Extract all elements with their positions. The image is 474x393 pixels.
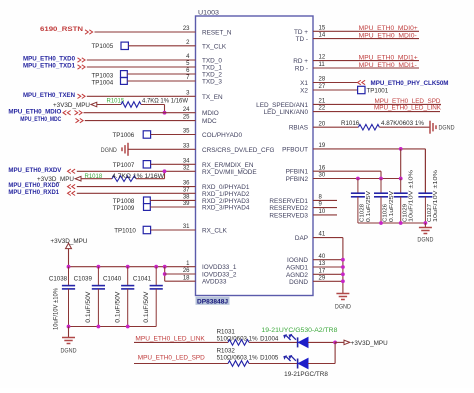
- wire RXD_2 pin38: [150, 199, 195, 201]
- svg-text:C1041: C1041: [133, 275, 152, 282]
- wire TX_CLK pin2: [128, 45, 195, 47]
- wire X1 pin28: [313, 82, 358, 84]
- svg-text:COL/PHYAD0: COL/PHYAD0: [202, 132, 242, 139]
- svg-text:14: 14: [319, 33, 326, 39]
- wire AGND2 pin17: [313, 273, 343, 275]
- junction RXDV/R1018: [163, 169, 167, 173]
- wire R1015 to MDIO: [141, 104, 165, 106]
- svg-text:18: 18: [183, 275, 190, 281]
- svg-text:4.87K/0603 1%: 4.87K/0603 1%: [381, 120, 424, 127]
- wire RESET_N pin23: [85, 30, 93, 34]
- svg-text:MPU_ETH0_TXD1: MPU_ETH0_TXD1: [23, 63, 76, 70]
- svg-text:13: 13: [319, 261, 326, 267]
- svg-text:AGND1: AGND1: [286, 265, 308, 272]
- svg-text:10uF/10V ±10%: 10uF/10V ±10%: [433, 170, 439, 222]
- svg-text:MPU_ETH0_MDC: MPU_ETH0_MDC: [20, 116, 61, 123]
- svg-text:C1038: C1038: [49, 275, 68, 282]
- svg-text:AGND2: AGND2: [286, 272, 308, 279]
- wire C1029 branch vertical: [400, 149, 402, 179]
- wire TD+ pin15: [313, 30, 419, 32]
- svg-text:PFBIN2: PFBIN2: [286, 176, 309, 183]
- svg-text:16: 16: [319, 165, 326, 171]
- junction PFB dots: [356, 177, 360, 181]
- svg-text:RX_CLK: RX_CLK: [202, 228, 228, 235]
- svg-text:C1026: C1026: [383, 204, 389, 222]
- svg-text:C1028: C1028: [360, 204, 366, 222]
- svg-text:27: 27: [319, 84, 326, 90]
- svg-text:RXD_1/PHYAD2: RXD_1/PHYAD2: [202, 191, 250, 198]
- svg-text:40: 40: [319, 254, 326, 260]
- wire R1018 branch: [81, 178, 112, 180]
- capacitor C1028: [357, 179, 359, 194]
- wire RESERVED3 pin10 stub: [313, 214, 337, 216]
- wire PFB cap bottom rail: [358, 222, 426, 224]
- testpoint TP1001: [358, 86, 365, 93]
- svg-text:IOGND: IOGND: [287, 257, 308, 264]
- svg-text:MDIO: MDIO: [202, 110, 219, 117]
- svg-text:DGND: DGND: [417, 236, 433, 243]
- junction LED rail: [333, 341, 337, 345]
- svg-text:R1032: R1032: [217, 347, 236, 354]
- svg-text:MPU_ETH0_TXD0: MPU_ETH0_TXD0: [23, 56, 76, 63]
- wire RX_DV pin32: [68, 169, 76, 173]
- svg-text:TP1003: TP1003: [92, 73, 114, 80]
- svg-text:U1003: U1003: [198, 10, 220, 17]
- svg-text:R1031: R1031: [217, 328, 236, 335]
- svg-text:DGND: DGND: [101, 147, 117, 154]
- svg-text:22: 22: [319, 106, 326, 112]
- svg-text:MPU_ETH0_LED_LINK: MPU_ETH0_LED_LINK: [374, 105, 442, 112]
- wire RD- pin11: [313, 67, 419, 69]
- svg-text:24: 24: [183, 107, 190, 113]
- svg-text:RBIAS: RBIAS: [289, 125, 308, 132]
- svg-text:MPU_ETH0_RXDV: MPU_ETH0_RXDV: [8, 167, 62, 174]
- svg-text:TXD_2: TXD_2: [202, 72, 222, 79]
- svg-text:6190_RSTN: 6190_RSTN: [40, 26, 84, 33]
- capacitor C1027: [424, 149, 426, 193]
- svg-text:RD +: RD +: [293, 58, 308, 65]
- wire TD- pin14: [313, 38, 419, 40]
- wire R1031 to D1004: [249, 341, 298, 343]
- svg-text:RESERVED3: RESERVED3: [269, 212, 308, 219]
- wire RX_ER pin34: [151, 163, 196, 165]
- wire TXD_3 pin7: [127, 80, 195, 82]
- ground DGND at PFB caps: [424, 223, 426, 228]
- svg-text:C1039: C1039: [74, 275, 93, 282]
- svg-text:DGND: DGND: [439, 125, 455, 132]
- svg-text:TX_EN: TX_EN: [202, 94, 223, 101]
- svg-text:D1004: D1004: [260, 336, 279, 343]
- node +3V3D_MPU power (LED): [335, 341, 344, 343]
- value DP83848J highlighted: [196, 297, 230, 305]
- svg-text:C1040: C1040: [103, 275, 122, 282]
- svg-text:DGND: DGND: [61, 347, 77, 354]
- wire DGND pin29: [313, 280, 343, 282]
- wire cap bottom rail: [69, 326, 157, 328]
- wire branch to pins 26/18: [164, 267, 166, 282]
- svg-text:510Ω/0603 1%: 510Ω/0603 1%: [217, 336, 258, 343]
- svg-text:TP1001: TP1001: [367, 88, 389, 95]
- svg-text:37: 37: [183, 187, 190, 193]
- svg-text:TP1007: TP1007: [113, 162, 135, 169]
- svg-text:DGND: DGND: [289, 279, 308, 286]
- svg-text:X1: X1: [300, 80, 308, 87]
- svg-text:10: 10: [319, 209, 326, 215]
- junction MDIO/R1015: [163, 111, 167, 115]
- svg-text:C1027: C1027: [427, 204, 433, 222]
- wire PFBOUT pin19: [313, 148, 425, 150]
- svg-text:19-21UYC/G530-A2/TR8: 19-21UYC/G530-A2/TR8: [261, 328, 338, 334]
- svg-text:AVDD33: AVDD33: [202, 279, 227, 286]
- ground DGND at pin29 bus: [336, 294, 349, 300]
- svg-text:IOVDD33_1: IOVDD33_1: [202, 264, 237, 271]
- svg-text:+3V3D_MPU: +3V3D_MPU: [351, 340, 388, 347]
- wire +3V3D vertical: [68, 249, 70, 267]
- capacitor C1026: [380, 179, 382, 194]
- svg-text:19-21PGC/TR8: 19-21PGC/TR8: [284, 371, 328, 378]
- svg-text:0.1uF/50V: 0.1uF/50V: [86, 292, 92, 323]
- svg-text:TX_CLK: TX_CLK: [202, 43, 227, 50]
- svg-text:0.1uF/25V: 0.1uF/25V: [389, 191, 395, 222]
- svg-text:TP1010: TP1010: [114, 228, 136, 235]
- wire R1032 to D1005: [249, 363, 298, 365]
- svg-text:21: 21: [319, 99, 326, 105]
- wire X2 pin27: [313, 89, 358, 91]
- wire RD+ pin12: [313, 60, 419, 62]
- wire power rail to pin1: [69, 266, 196, 268]
- wire LED vertical join: [334, 342, 336, 363]
- svg-text:0.1uF/25V: 0.1uF/25V: [366, 191, 372, 222]
- wire RESERVED2 pin9 stub: [313, 207, 337, 209]
- svg-text:RX_ER/MDIX_EN: RX_ER/MDIX_EN: [202, 162, 254, 169]
- svg-text:TXD_3: TXD_3: [202, 79, 222, 86]
- svg-text:29: 29: [319, 275, 326, 281]
- svg-text:TD +: TD +: [294, 29, 308, 36]
- wire RXD_1 pin37: [68, 191, 76, 195]
- svg-text:11: 11: [319, 62, 326, 68]
- wire RESERVED1 pin8 stub: [313, 199, 337, 201]
- node MPU_ETH0_PHY_CLK50M: [358, 80, 366, 84]
- svg-text:MPU_ETH0_LED_SPD: MPU_ETH0_LED_SPD: [138, 355, 205, 362]
- svg-text:PFBOUT: PFBOUT: [282, 146, 308, 153]
- op-amp U1003 IC body DP83848J: [196, 16, 314, 296]
- svg-text:TP1006: TP1006: [113, 132, 135, 139]
- svg-text:D1005: D1005: [260, 355, 279, 362]
- svg-text:4.7KΩ 1% 1/16W: 4.7KΩ 1% 1/16W: [142, 99, 188, 105]
- svg-text:25: 25: [183, 115, 190, 121]
- wire RXD_0 pin36: [68, 184, 76, 188]
- capacitor C1029: [400, 179, 402, 194]
- wire LED_LINK pin22: [313, 111, 440, 113]
- wire D1004 to +3V3D: [308, 341, 335, 343]
- svg-text:23: 23: [183, 26, 190, 32]
- svg-text:TP1004: TP1004: [92, 80, 114, 87]
- wire R1015 branch: [97, 104, 121, 106]
- svg-text:19: 19: [319, 143, 326, 149]
- svg-text:38: 38: [183, 195, 190, 201]
- wire DAP pin41: [313, 237, 343, 239]
- svg-text:36: 36: [183, 181, 190, 187]
- svg-text:TXD_0: TXD_0: [202, 58, 222, 65]
- svg-text:LED_SPEED/AN1: LED_SPEED/AN1: [256, 102, 308, 109]
- wire COL pin35: [151, 134, 196, 136]
- diode D1004 LED: [284, 335, 308, 348]
- svg-text:39: 39: [183, 201, 190, 207]
- svg-text:33: 33: [183, 143, 190, 149]
- svg-text:17: 17: [319, 268, 326, 274]
- wire MDC pin25: [76, 118, 84, 122]
- svg-text:20: 20: [319, 121, 326, 127]
- wire CRS pin33: [128, 148, 196, 150]
- wire AGND1 pin13: [313, 266, 343, 268]
- svg-text:DAP: DAP: [295, 235, 308, 242]
- svg-text:12: 12: [319, 55, 326, 61]
- svg-text:15: 15: [319, 25, 326, 31]
- diode D1005 LED: [284, 356, 308, 369]
- svg-text:DP83848J: DP83848J: [197, 299, 229, 306]
- wire TXD_2 pin6: [127, 73, 195, 75]
- svg-text:510Ω/0603 1%: 510Ω/0603 1%: [217, 355, 258, 362]
- svg-text:MPU_ETH0_LED_LINK: MPU_ETH0_LED_LINK: [135, 336, 205, 343]
- ground DGND at RBIAS: [430, 121, 436, 134]
- junction PFBOUT/C1029: [399, 147, 403, 151]
- wire R1016 to ground: [379, 126, 430, 128]
- svg-text:34: 34: [183, 158, 190, 164]
- wire TXD_1 pin5: [78, 65, 86, 69]
- svg-text:C1029: C1029: [402, 204, 408, 222]
- wire TX_EN pin3: [78, 94, 86, 98]
- svg-text:R1018: R1018: [85, 174, 103, 180]
- svg-text:31: 31: [183, 224, 190, 230]
- wire LED_LINK row: [134, 341, 228, 343]
- svg-text:RESERVED2: RESERVED2: [269, 205, 308, 212]
- svg-text:0.1uF/50V: 0.1uF/50V: [115, 292, 121, 323]
- wire TXD_0 pin4: [78, 58, 86, 62]
- svg-text:MPU_ETH0_TXEN: MPU_ETH0_TXEN: [23, 92, 76, 99]
- wire LED_SPEED pin21: [313, 103, 441, 105]
- wire R1018 to RXDV: [136, 178, 165, 180]
- svg-text:RD -: RD -: [295, 66, 308, 73]
- svg-text:RESERVED1: RESERVED1: [269, 198, 308, 205]
- svg-text:MPU_ETH0_MDIO: MPU_ETH0_MDIO: [8, 108, 61, 115]
- svg-text:41: 41: [319, 232, 326, 238]
- svg-text:35: 35: [183, 129, 190, 135]
- svg-text:TP1005: TP1005: [92, 43, 114, 50]
- svg-text:MPU_ETH0_RXD1: MPU_ETH0_RXD1: [8, 189, 59, 196]
- svg-text:LED_LINK/AN0: LED_LINK/AN0: [264, 109, 309, 116]
- svg-text:X2: X2: [300, 88, 308, 95]
- svg-text:RESET_N: RESET_N: [202, 30, 232, 37]
- svg-text:CRS/CRS_DV/LED_CFG: CRS/CRS_DV/LED_CFG: [202, 147, 274, 154]
- wire PFBIN2 pin30: [313, 178, 401, 180]
- svg-text:26: 26: [183, 268, 190, 274]
- svg-text:RXD_3/PHYAD4: RXD_3/PHYAD4: [202, 205, 250, 212]
- svg-text:PFBIN1: PFBIN1: [286, 169, 309, 176]
- svg-text:10uF/10V ±10%: 10uF/10V ±10%: [409, 170, 415, 222]
- svg-text:MPU_ETH0_PHY_CLK50M: MPU_ETH0_PHY_CLK50M: [371, 80, 449, 87]
- wire MDIO pin24: [63, 111, 71, 115]
- wire IOGND pin40: [313, 259, 343, 261]
- wire RBIAS pin20: [313, 126, 358, 128]
- svg-text:0.1uF/50V: 0.1uF/50V: [144, 292, 150, 323]
- junction rail dots: [67, 265, 71, 269]
- ground DGND bottom-left: [68, 327, 70, 338]
- svg-text:10uF/10V ±10%: 10uF/10V ±10%: [53, 287, 59, 330]
- svg-text:TD -: TD -: [296, 36, 308, 43]
- svg-text:32: 32: [183, 165, 190, 171]
- svg-text:TP1009: TP1009: [113, 205, 135, 212]
- wire RXD_3 pin39: [150, 206, 195, 208]
- svg-text:R1016: R1016: [341, 120, 360, 127]
- wire D1005 to vertical: [308, 363, 335, 365]
- svg-text:28: 28: [319, 77, 326, 83]
- svg-text:DGND: DGND: [335, 304, 351, 311]
- wire PFBIN1 pin16: [313, 170, 381, 172]
- svg-text:TXD_1: TXD_1: [202, 65, 222, 72]
- wire LED_SPD row: [134, 363, 228, 365]
- svg-text:MDC: MDC: [202, 118, 217, 125]
- svg-text:30: 30: [319, 173, 326, 179]
- svg-text:RX_DV/MII_MODE: RX_DV/MII_MODE: [202, 169, 257, 176]
- wire RX_CLK pin31: [151, 229, 196, 231]
- svg-text:IOVDD33_2: IOVDD33_2: [202, 272, 237, 279]
